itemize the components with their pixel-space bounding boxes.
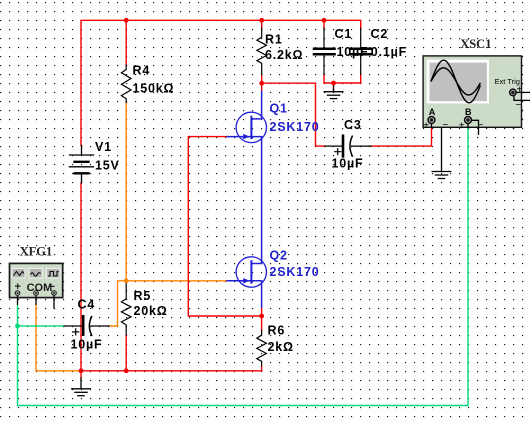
svg-text:XFG1: XFG1 xyxy=(20,245,53,259)
wire: red junction to R6 top xyxy=(261,316,263,331)
wire: battery bottom to bottom bus xyxy=(80,183,82,378)
wire: red junction to C3 left xyxy=(262,83,325,146)
svg-text:C4: C4 xyxy=(78,298,96,312)
scope trace inner xyxy=(431,68,481,95)
capacitor C1 xyxy=(314,28,335,74)
wire: red R4 top xyxy=(125,20,127,65)
capacitor C3 xyxy=(325,136,371,157)
wire: top red bus y=20 xyxy=(81,20,361,145)
svg-text:Q1: Q1 xyxy=(270,102,288,116)
wire: green XFG+ down xyxy=(17,305,19,326)
junction: XFG1 plus / C4 node xyxy=(15,324,20,329)
XFG terminals xyxy=(15,291,56,309)
svg-text:XSC1: XSC1 xyxy=(460,37,491,51)
junction: R1 top at V+ bus xyxy=(259,18,264,23)
wire: red C1/C2 bottom bus xyxy=(324,74,361,83)
svg-text:−: − xyxy=(516,100,522,111)
svg-text:Q2: Q2 xyxy=(270,248,288,262)
wire: red R6 bottom xyxy=(261,366,263,371)
svg-text:2SK170: 2SK170 xyxy=(270,265,320,279)
resistor R5 xyxy=(121,281,131,335)
svg-text:R6: R6 xyxy=(268,323,286,337)
svg-text:V1: V1 xyxy=(95,140,112,154)
svg-text:+: + xyxy=(459,121,465,132)
junction: R4 top at V+ bus xyxy=(124,18,129,23)
svg-text:−: − xyxy=(49,281,55,293)
ground (bottom left) xyxy=(72,378,91,396)
svg-text:+: + xyxy=(423,121,429,132)
svg-text:15V: 15V xyxy=(95,159,120,173)
junction: C1/C2 ground tap xyxy=(331,81,336,86)
ground (C1/C2 bus) xyxy=(324,83,343,99)
resistor R1 xyxy=(257,28,267,75)
svg-text:150kΩ: 150kΩ xyxy=(133,81,175,95)
svg-text:10µF: 10µF xyxy=(332,157,364,171)
wire: orange from XFG COM to bottom bus xyxy=(36,305,81,371)
svg-text:2SK170: 2SK170 xyxy=(270,120,320,134)
wire: red R1 top lead xyxy=(261,20,263,28)
junction: battery minus at ground bus xyxy=(79,368,84,373)
wire: orange R4 bottom to R5 junction xyxy=(125,103,127,281)
svg-text:R1: R1 xyxy=(265,33,283,47)
wire: bottom red bus y=370.8 xyxy=(81,370,262,372)
svg-text:0.1µF: 0.1µF xyxy=(371,45,407,59)
svg-text:A: A xyxy=(429,107,436,117)
wire: red Q2 source to junction xyxy=(261,308,263,316)
svg-text:+: + xyxy=(15,281,21,293)
svg-text:10µF: 10µF xyxy=(337,45,369,59)
junction: Q2 source / R6 top node xyxy=(259,314,264,319)
junction: C1 top at V+ bus xyxy=(322,18,327,23)
svg-text:+: + xyxy=(517,84,523,95)
svg-text:B: B xyxy=(465,107,472,117)
transistor Q2 xyxy=(226,257,266,308)
wire: red Q1 gate loop xyxy=(188,137,261,316)
transistor Q1 xyxy=(226,91,266,264)
capacitor C2 xyxy=(351,28,371,74)
junction: R4/R5/C4/Q2-gate node xyxy=(124,278,129,283)
resistor R6 xyxy=(257,331,267,367)
wire: red C1 top lead xyxy=(323,20,325,28)
wire: orange junction to Q2 gate xyxy=(126,280,226,282)
junction: R1 bottom / Q1 drain node xyxy=(259,81,264,86)
svg-text:R5: R5 xyxy=(134,289,152,303)
scope trace outer xyxy=(431,60,481,102)
wire: red R5 bottom xyxy=(125,335,127,371)
battery V1 xyxy=(70,146,94,184)
svg-text:6.2kΩ: 6.2kΩ xyxy=(265,48,303,62)
junction: R5 bottom at ground bus xyxy=(124,368,129,373)
oscilloscope XSC1 xyxy=(423,56,530,135)
function generator XFG1 xyxy=(10,263,63,308)
wire: orange jog junction to C4 right xyxy=(109,281,126,326)
wire: red C3 right to scope A xyxy=(371,126,431,146)
svg-text:C3: C3 xyxy=(344,118,362,132)
svg-text:2kΩ: 2kΩ xyxy=(268,340,294,354)
svg-text:C2: C2 xyxy=(371,27,389,41)
ground (scope A minus) xyxy=(432,120,451,178)
capacitor C4 xyxy=(64,316,109,335)
svg-text:10µF: 10µF xyxy=(71,338,103,352)
wire: green junction to C4 xyxy=(18,325,65,327)
svg-text:−: − xyxy=(443,120,449,131)
svg-text:C1: C1 xyxy=(335,27,353,41)
resistor R4 xyxy=(121,65,131,103)
wire: green bottom run to scope B xyxy=(18,128,469,405)
wire: red junction down to Q1 drain xyxy=(261,83,263,90)
svg-text:R4: R4 xyxy=(133,64,151,78)
svg-text:20kΩ: 20kΩ xyxy=(134,304,168,318)
wire: red R1 bottom to junction xyxy=(261,74,263,83)
